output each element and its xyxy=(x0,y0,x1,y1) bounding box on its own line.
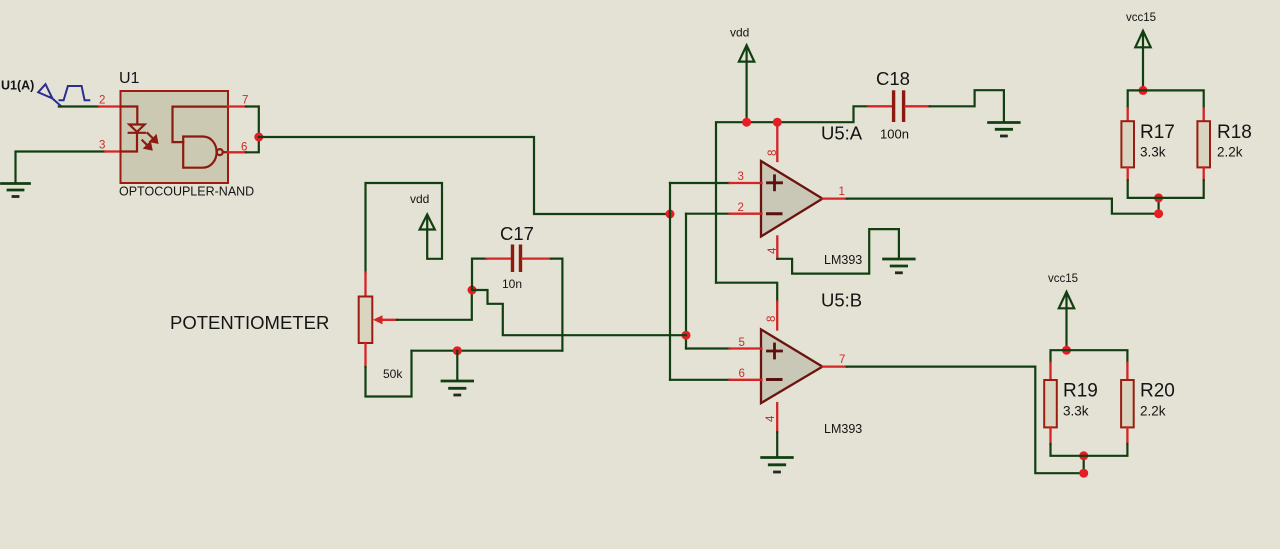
svg-text:LM393: LM393 xyxy=(824,253,862,267)
svg-text:vcc15: vcc15 xyxy=(1048,273,1078,285)
wire U5:A pin 4 to ground xyxy=(777,229,899,274)
pin stub U5:B pin 6 xyxy=(730,379,762,381)
junction pot net on vertical xyxy=(682,331,691,340)
pin stub U1 pin 6 xyxy=(228,151,246,153)
wire junction to ground xyxy=(456,351,458,381)
wire to U5:B pin 5 xyxy=(686,347,730,349)
wire pot bottom to ground rail xyxy=(366,351,412,397)
capacitor C18 lead right xyxy=(905,105,929,107)
junction wiper/C17 xyxy=(468,286,477,295)
U5:B plus xyxy=(768,344,782,358)
U1 internal NAND gate xyxy=(173,107,228,168)
svg-text:C17: C17 xyxy=(500,223,534,244)
pin stub U5:A pin 8 xyxy=(776,124,778,162)
svg-text:8: 8 xyxy=(767,150,779,156)
pin stub pot bottom xyxy=(364,343,366,367)
svg-text:4: 4 xyxy=(767,247,779,254)
power symbol vcc15 (lower) xyxy=(1059,292,1074,350)
wire U5:B output to R19/R20 xyxy=(847,367,1084,474)
pin stub U1 pin 7 xyxy=(228,105,246,107)
pin stub U5:A pin 3 xyxy=(730,182,762,184)
capacitor C18 lead left xyxy=(868,105,893,107)
wire to U5:B pin 6 xyxy=(670,379,730,381)
svg-text:POTENTIOMETER: POTENTIOMETER xyxy=(170,312,329,333)
svg-text:C18: C18 xyxy=(876,68,910,89)
junction vcc15 top rail xyxy=(1139,86,1148,95)
pin stub R19 top xyxy=(1049,363,1051,380)
svg-text:8: 8 xyxy=(766,316,778,322)
pin stub R20 bottom xyxy=(1126,427,1128,444)
wire U1 output to comparators xyxy=(259,137,670,214)
ground (U5:B) xyxy=(762,458,793,473)
resistor R19 body xyxy=(1044,380,1057,427)
svg-text:vdd: vdd xyxy=(730,26,749,40)
pin stub U5:B pin 8 xyxy=(776,302,778,330)
svg-text:U1(A): U1(A) xyxy=(1,79,34,93)
generator probe symbol xyxy=(38,84,61,106)
wire vdd down to U5:B pin 8 xyxy=(716,283,777,302)
wire C18 to ground xyxy=(930,90,1004,121)
potentiometer RV top wire with vdd loop xyxy=(366,183,443,273)
wire R19/R20 bottom rail xyxy=(1051,444,1128,456)
junction at U1 output xyxy=(254,133,263,142)
wire U1 pins 7-6 tie xyxy=(246,107,259,153)
junction vcc15 lower rail xyxy=(1062,346,1071,355)
power symbol vcc15 (top right) xyxy=(1135,31,1150,91)
svg-text:10n: 10n xyxy=(502,277,522,291)
svg-text:6: 6 xyxy=(739,368,745,380)
pot wiper arrow xyxy=(373,315,397,324)
U5:A minus xyxy=(768,212,782,215)
svg-text:U5:A: U5:A xyxy=(821,123,863,144)
pin stub U5:B pin 5 xyxy=(730,347,762,349)
wire mid ground rail xyxy=(412,350,563,352)
ground (pot / C17) xyxy=(442,381,473,395)
generator pulse waveform xyxy=(60,86,90,100)
junction output jog xyxy=(1154,209,1163,218)
pin stub U5:A pin 1 output xyxy=(823,197,847,199)
wire C17 right down to ground rail xyxy=(551,259,562,351)
potentiometer body xyxy=(359,297,373,344)
svg-text:R18: R18 xyxy=(1217,122,1252,143)
svg-text:100n: 100n xyxy=(880,127,909,142)
svg-text:50k: 50k xyxy=(383,367,403,381)
svg-text:2.2k: 2.2k xyxy=(1140,404,1166,419)
ground (left input) xyxy=(2,184,30,197)
svg-text:2: 2 xyxy=(99,95,105,107)
resistor R17 body xyxy=(1121,121,1134,167)
svg-text:5: 5 xyxy=(739,337,745,349)
U5:B minus xyxy=(768,378,782,381)
pin stub R18 top xyxy=(1203,108,1205,121)
pin stub R20 top xyxy=(1126,363,1128,380)
pin stub U5:A pin 4 xyxy=(776,237,778,259)
pin stub U5:B pin 7 output xyxy=(823,365,847,367)
pin stub U5:A pin 2 xyxy=(730,213,762,215)
optocoupler U1 body xyxy=(121,91,229,183)
capacitor C17 lead right xyxy=(522,257,551,259)
svg-text:R17: R17 xyxy=(1140,122,1175,143)
resistor R20 body xyxy=(1121,380,1134,427)
ground (C18) xyxy=(989,123,1020,137)
svg-text:1: 1 xyxy=(839,186,845,198)
wire U5:A output to R17/R18 xyxy=(847,198,1159,214)
capacitor C17 lead left xyxy=(487,257,512,259)
svg-text:LM393: LM393 xyxy=(824,422,862,436)
pin stub pot top xyxy=(364,273,366,298)
pin stub R18 bottom xyxy=(1203,167,1205,180)
svg-text:U1: U1 xyxy=(119,70,140,87)
svg-text:U5:B: U5:B xyxy=(821,290,862,311)
junction vdd shaft xyxy=(742,118,751,127)
U1 internal LED xyxy=(122,107,146,152)
capacitor C17 plates xyxy=(511,245,522,273)
svg-text:3: 3 xyxy=(738,171,744,183)
junction R19/R20 bottom rail xyxy=(1079,451,1088,460)
wire vertical net A (opto to pins 3,6) xyxy=(669,183,671,380)
U1 LED light arrows xyxy=(142,133,157,149)
junction mid ground xyxy=(453,346,462,355)
wire U5:B pin 4 to ground xyxy=(776,432,778,456)
svg-text:2.2k: 2.2k xyxy=(1217,145,1243,160)
wire R17/R18 bottom rail xyxy=(1128,180,1204,198)
svg-text:R19: R19 xyxy=(1063,381,1098,402)
wire R19/R20 top rail xyxy=(1051,350,1128,362)
junction opto net on vertical xyxy=(666,210,675,219)
power symbol vdd (op-amps) xyxy=(739,45,754,122)
svg-text:7: 7 xyxy=(839,354,845,366)
pin stub R17 bottom xyxy=(1127,167,1129,180)
wire junction up to C17 xyxy=(472,259,487,290)
svg-text:R20: R20 xyxy=(1140,381,1175,402)
wire wiper to junction xyxy=(397,290,472,320)
wire to U5:A pin 3 xyxy=(670,182,730,184)
pin stub R19 bottom xyxy=(1049,427,1051,444)
pin stub R17 top xyxy=(1127,108,1129,121)
ground (U5:A) xyxy=(884,259,915,273)
resistor R18 body xyxy=(1197,121,1210,167)
svg-text:3.3k: 3.3k xyxy=(1063,404,1089,419)
wire to U5:A pin 2 xyxy=(686,213,730,215)
junction output jog B xyxy=(1079,469,1088,478)
svg-text:3: 3 xyxy=(99,140,105,152)
wire input to U1 pin 3 xyxy=(16,152,106,184)
pin stub U1 pin 2 xyxy=(99,105,121,107)
wire input to U1 pin 2 xyxy=(59,105,99,107)
power symbol vdd (pot) xyxy=(420,214,435,229)
svg-text:vcc15: vcc15 xyxy=(1126,12,1156,24)
capacitor C18 plates xyxy=(892,90,905,122)
wire vertical net B (pot to pins 2,5) xyxy=(685,214,687,349)
pin stub U1 pin 3 xyxy=(105,150,121,152)
wire staircase junction to net B xyxy=(472,290,686,335)
svg-text:2: 2 xyxy=(738,202,744,214)
svg-text:OPTOCOUPLER-NAND: OPTOCOUPLER-NAND xyxy=(119,185,254,199)
wire vdd rail xyxy=(716,106,868,282)
wire R17/R18 top rail xyxy=(1128,90,1204,108)
op-amp U5:A xyxy=(761,161,823,237)
svg-text:7: 7 xyxy=(242,95,248,107)
svg-text:vdd: vdd xyxy=(410,192,429,206)
op-amp U5:B xyxy=(761,329,823,403)
pin stub U5:B pin 4 xyxy=(776,403,778,432)
svg-text:4: 4 xyxy=(765,415,777,422)
svg-text:3.3k: 3.3k xyxy=(1140,145,1166,160)
junction R17/R18 bottom rail xyxy=(1154,193,1163,202)
junction pin8 A xyxy=(773,118,782,127)
U5:A plus xyxy=(768,176,782,190)
